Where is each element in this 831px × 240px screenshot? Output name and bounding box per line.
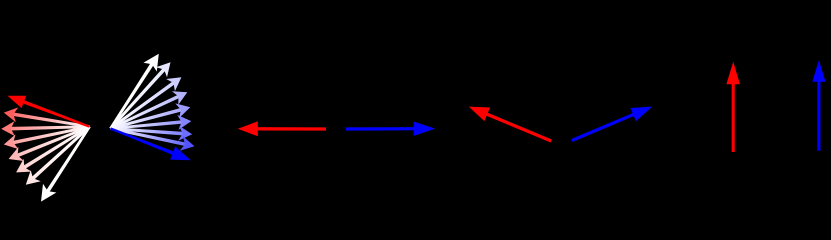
left fan trail arrow 3 (faded red 0.48) (1, 121, 89, 136)
V-pair blue arrow up-right (572, 107, 653, 141)
left fan trail arrow 5 (faded red 0.72) (9, 126, 91, 162)
middle red arrow pointing left (238, 121, 326, 136)
right fan white extreme arrow (oldest frame) (109, 54, 158, 130)
left fan white extreme arrow (oldest frame) (41, 126, 91, 202)
right fan trail arrow 2 (faded blue 0.90) (110, 62, 171, 129)
left fan solid red arrow (newest frame) (8, 96, 91, 128)
right blue vertical arrow up (812, 60, 825, 151)
left fan trail arrow 6 (faded red 0.82) (16, 126, 90, 173)
V-pair red arrow up-left (469, 107, 551, 141)
right fan trail arrow 4 (faded blue 0.70) (110, 91, 187, 129)
left fan trail arrow 2 (faded red 0.36) (4, 107, 90, 128)
right fan trail arrow 8 (faded blue 0.33) (110, 127, 194, 151)
right fan solid blue arrow (newest frame) (110, 127, 191, 160)
middle blue arrow pointing right (346, 122, 435, 136)
right fan trail arrow 3 (faded blue 0.80) (110, 77, 182, 129)
right fan trail arrow 7 (faded blue 0.43) (110, 126, 192, 141)
left fan trail arrow 7 (faded red 0.90) (26, 126, 91, 185)
right red vertical arrow up (726, 62, 740, 152)
right fan trail arrow 6 (faded blue 0.52) (110, 115, 191, 130)
left fan trail arrow 4 (faded red 0.60) (4, 125, 90, 149)
right fan trail arrow 5 (faded blue 0.61) (110, 103, 190, 129)
